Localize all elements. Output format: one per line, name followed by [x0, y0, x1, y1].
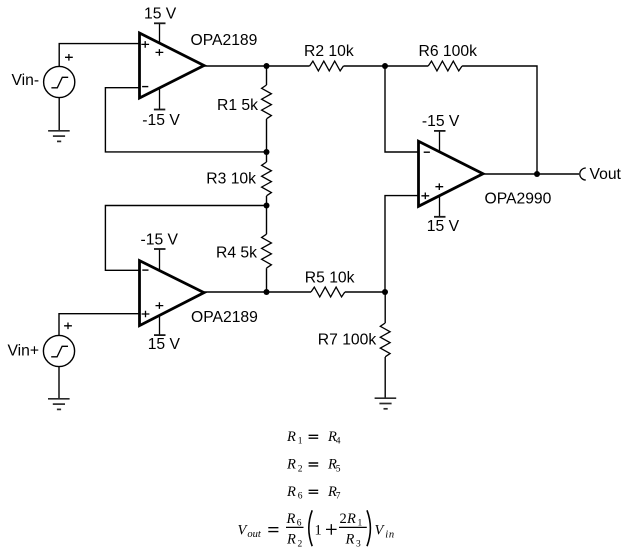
U3 positive supply T-bar: [434, 216, 446, 218]
U1 negative supply pin: [159, 88, 161, 110]
svg-text:R6 100k: R6 100k: [419, 43, 478, 60]
svg-text:5: 5: [336, 464, 341, 474]
U3 non-inverting input marker +: [421, 193, 429, 200]
resistor R1 5k: [262, 85, 272, 119]
svg-text:15 V: 15 V: [148, 336, 181, 353]
svg-text:out: out: [247, 529, 262, 540]
source VG1 Vin- circle: [44, 66, 75, 97]
op-amp U1 OPA2189 (top): [140, 33, 205, 98]
node E (R5/R7/U3+ junction): [382, 289, 388, 295]
node F (R4/R5 junction): [264, 289, 270, 295]
svg-text:R1 5k: R1 5k: [217, 97, 258, 114]
svg-text:R5 10k: R5 10k: [305, 269, 355, 286]
svg-text:R: R: [286, 484, 296, 500]
U3 V+ pin marker +: [435, 183, 443, 190]
wire U3 output to Vout: [483, 173, 579, 175]
node D (R3/R4 junction): [264, 203, 270, 209]
wire R4 bottom lead: [266, 268, 268, 292]
equation Vout formula: [238, 510, 395, 549]
svg-text:7: 7: [336, 492, 341, 502]
wire VG1 bottom to ground: [58, 98, 60, 131]
svg-text:4: 4: [336, 437, 341, 447]
U3 inverting input marker -: [424, 151, 430, 153]
U2 positive supply pin (bottom): [159, 315, 161, 335]
svg-text:R: R: [286, 429, 296, 445]
svg-text:R: R: [286, 532, 296, 548]
wire node B to R6: [385, 65, 428, 67]
svg-text:Vout: Vout: [590, 166, 622, 183]
svg-text:2: 2: [298, 464, 303, 474]
wire R7 bottom lead to ground: [384, 357, 386, 398]
svg-text:R: R: [286, 511, 296, 527]
svg-text:2: 2: [298, 540, 303, 550]
resistor R2 10k: [310, 61, 344, 71]
source VG2 Vin+ circle: [43, 335, 74, 366]
wire R6 to feedback corner down to output node: [462, 66, 537, 174]
U2 negative supply pin (top): [159, 249, 161, 270]
svg-text:R3 10k: R3 10k: [206, 170, 256, 187]
U1 negative supply T-bar: [154, 109, 165, 111]
resistor R5 10k: [311, 287, 345, 297]
wire R2 to node B: [344, 65, 386, 67]
svg-text:-15 V: -15 V: [142, 112, 180, 129]
U2 V+ pin marker +: [156, 302, 164, 309]
wire node E up to U3 non-inverting input: [385, 196, 419, 292]
resistor R7 100k: [380, 323, 390, 357]
U1 positive supply T-bar: [154, 22, 166, 24]
equation R1 = R4: [286, 429, 341, 447]
svg-text:OPA2990: OPA2990: [485, 191, 552, 208]
U2 inverting input marker -: [142, 269, 148, 271]
resistor R4 5k: [262, 234, 272, 268]
ground (VG1): [48, 131, 70, 142]
Vout terminal arc: [580, 168, 586, 180]
ground (VG2): [48, 399, 70, 410]
op-amp U3 OPA2990: [419, 141, 484, 206]
svg-text:OPA2189: OPA2189: [191, 32, 258, 49]
VG1 waveform: [51, 77, 68, 88]
VG2 plus sign: [64, 323, 72, 330]
svg-text:-15 V: -15 V: [422, 113, 460, 130]
U1 positive supply pin: [159, 23, 161, 43]
resistor R3 10k: [262, 162, 272, 196]
svg-text:-15 V: -15 V: [141, 231, 179, 248]
svg-text:2: 2: [340, 511, 347, 527]
svg-text:3: 3: [356, 540, 361, 550]
wire R7 top lead: [384, 292, 386, 323]
U2 non-inverting input marker +: [142, 311, 150, 318]
node C (R1/R3 junction): [264, 149, 270, 155]
svg-text:15 V: 15 V: [427, 218, 460, 235]
equation R2 = R5: [286, 457, 341, 475]
resistor R6 100k: [428, 61, 462, 71]
wire R3 top lead: [266, 152, 268, 162]
wire U1 feedback loop: [105, 88, 266, 152]
wire VG1 top to U1 + input: [59, 44, 139, 67]
svg-text:1: 1: [315, 523, 322, 539]
U3 negative supply pin (top): [439, 131, 441, 152]
svg-text:6: 6: [298, 492, 303, 502]
wire VG2 top to U2 + input: [59, 314, 140, 336]
svg-text:15 V: 15 V: [144, 6, 177, 23]
svg-text:R7 100k: R7 100k: [318, 332, 377, 349]
U3 negative supply T-bar: [434, 130, 446, 132]
svg-text:R: R: [345, 532, 355, 548]
U2 positive supply T-bar: [154, 334, 166, 336]
svg-text:1: 1: [298, 437, 303, 447]
svg-text:OPA2189: OPA2189: [191, 309, 258, 326]
equation R6 = R7: [286, 484, 341, 502]
U1 V+ pin marker +: [156, 49, 164, 56]
wire U2 output to R5: [204, 291, 311, 293]
U1 non-inverting input marker +: [141, 41, 149, 48]
node G (output node): [534, 171, 540, 177]
svg-text:R: R: [286, 457, 296, 473]
wire R1 top lead: [266, 66, 268, 85]
svg-text:R4 5k: R4 5k: [216, 245, 257, 262]
U1 inverting input marker -: [142, 86, 148, 88]
wire VG2 bottom to ground: [58, 367, 60, 399]
node B (R2/R6/U3- junction): [382, 63, 388, 69]
U3 positive supply pin (bottom): [439, 196, 441, 217]
U2 negative supply T-bar: [154, 248, 166, 250]
ground (R7): [375, 398, 397, 409]
wire R5 to node E: [345, 291, 385, 293]
wire U1 output to R2: [204, 65, 310, 67]
wire R3 bottom lead: [266, 196, 268, 206]
svg-text:R2 10k: R2 10k: [304, 43, 354, 60]
wire U2 feedback loop: [105, 206, 266, 271]
svg-text:Vin-: Vin-: [12, 72, 40, 89]
svg-text:in: in: [385, 530, 394, 541]
wire R1 bottom lead: [266, 119, 268, 152]
svg-text:R: R: [346, 511, 356, 527]
op-amp U2 OPA2189 (bottom): [140, 261, 205, 326]
VG1 plus sign: [65, 54, 73, 61]
wire node B down to U3 inverting input: [385, 66, 419, 152]
VG2 waveform: [51, 346, 68, 357]
svg-text:Vin+: Vin+: [8, 343, 40, 360]
node A (R1/R2 junction): [264, 63, 270, 69]
wire R4 top lead: [266, 206, 268, 235]
